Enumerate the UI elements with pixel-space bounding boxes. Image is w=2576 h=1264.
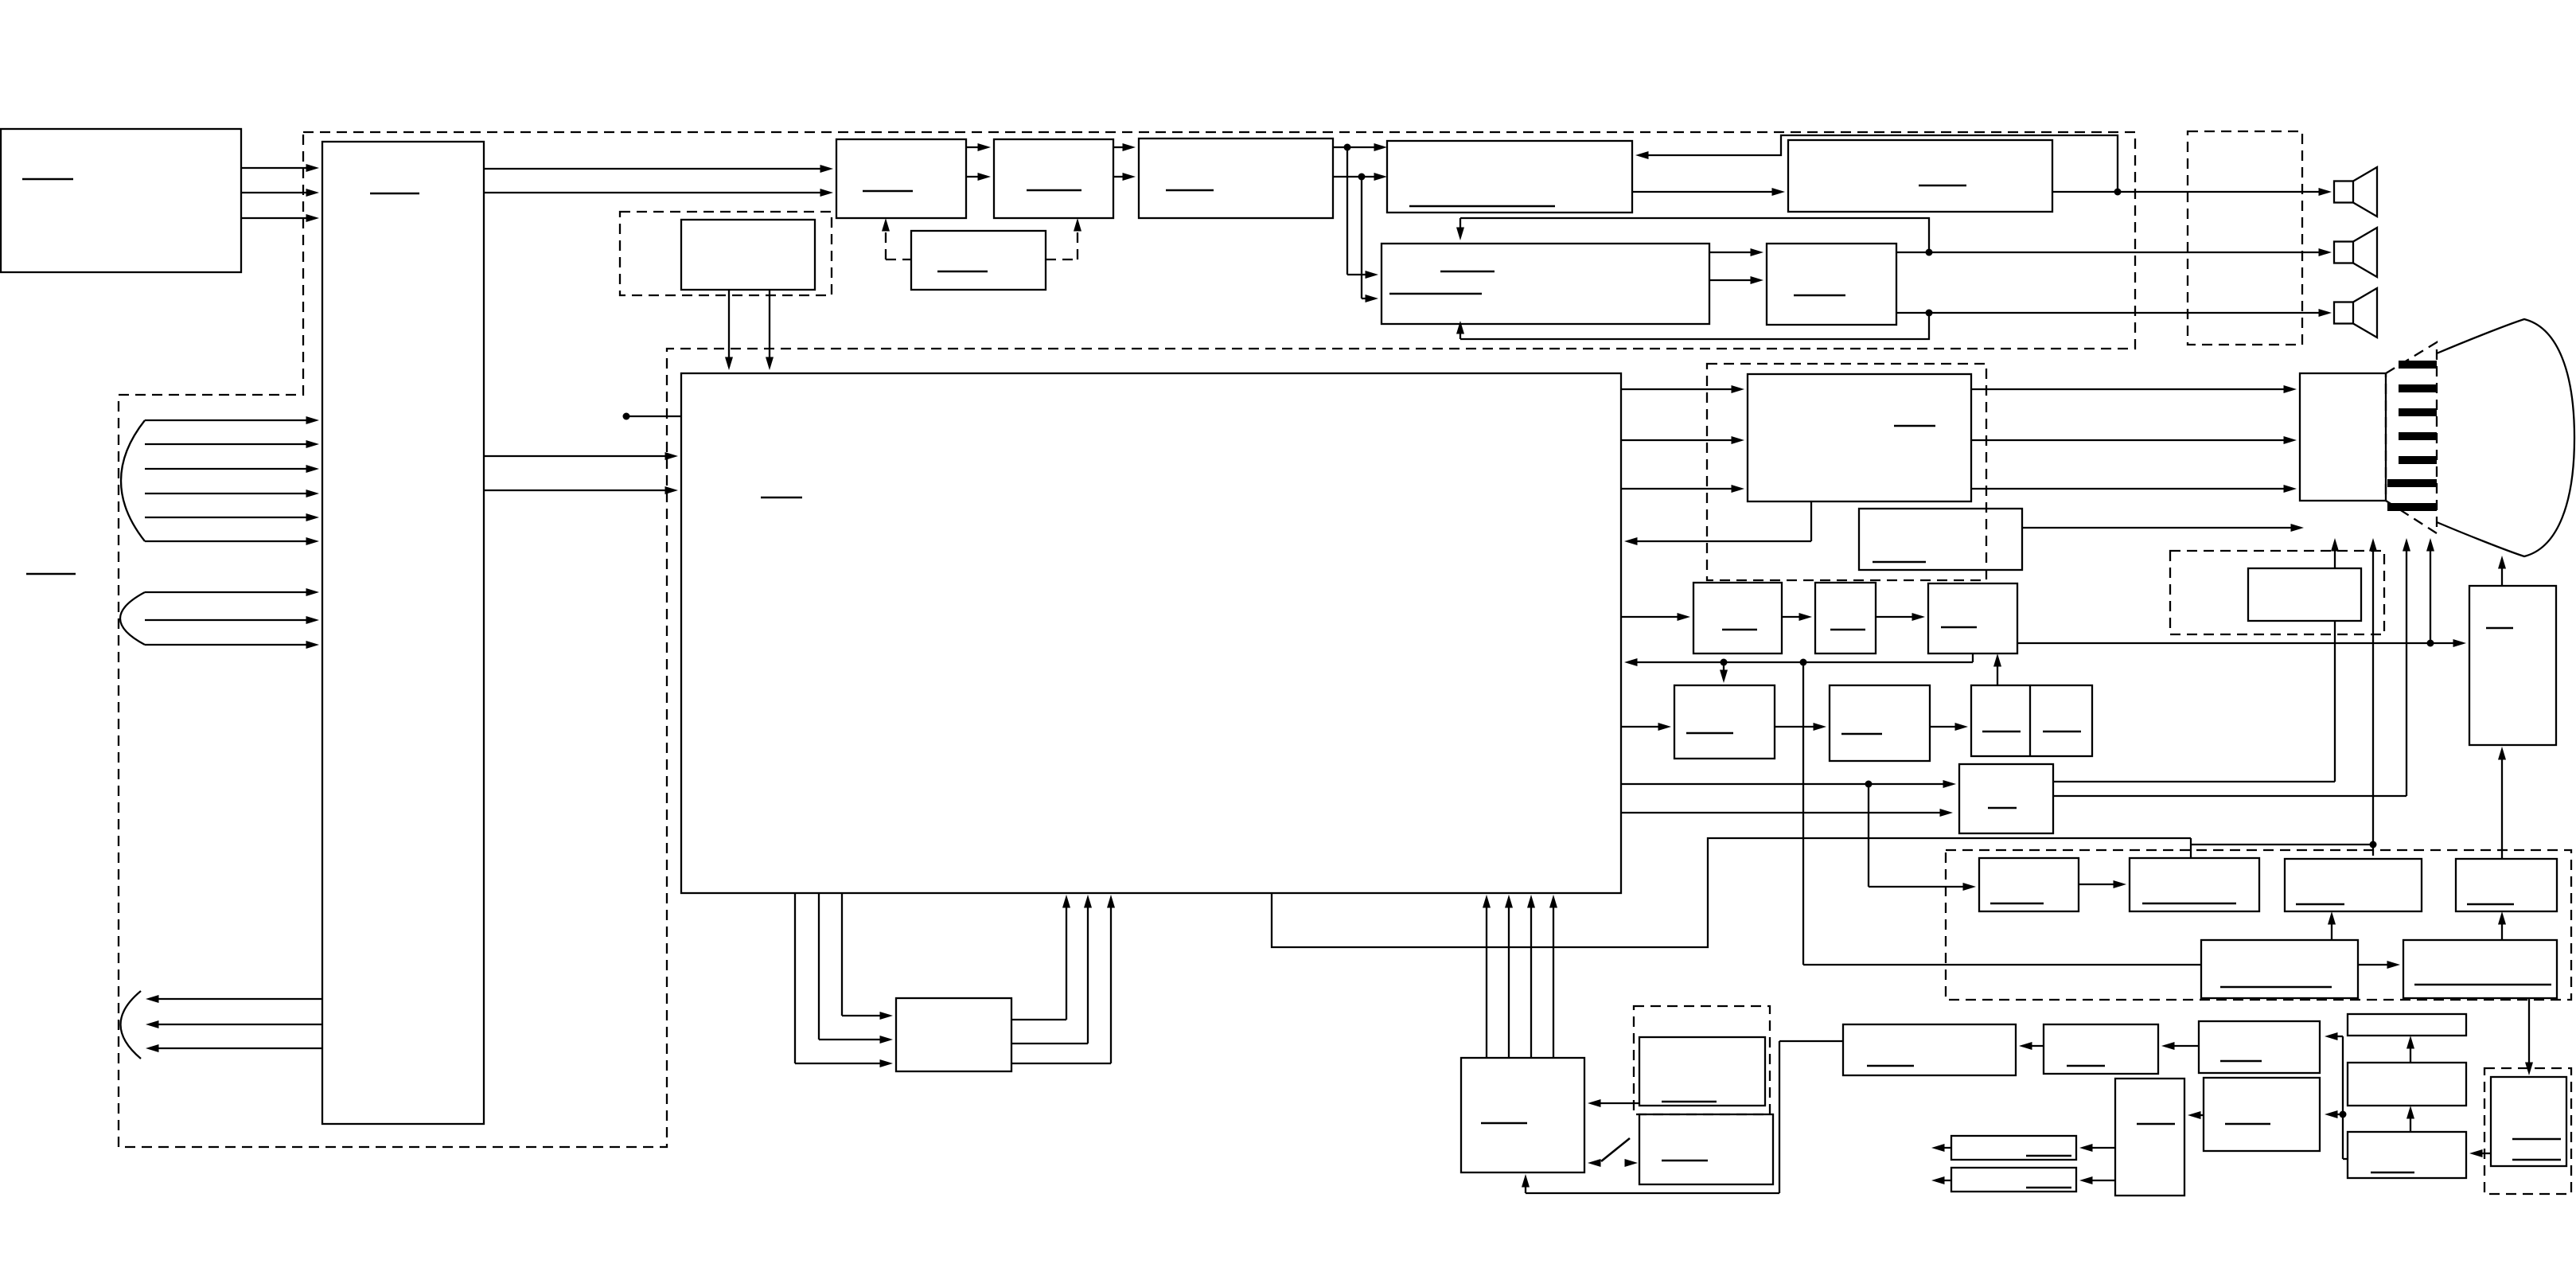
wire FB->CRT anode: [2498, 556, 2506, 586]
wire D3->D2: [2406, 1106, 2414, 1132]
wire L2 out: [1931, 1176, 1951, 1184]
speaker SP1: [2334, 167, 2377, 217]
wire tuner->controller 1: [241, 164, 319, 172]
wire junction down to P1: [1869, 784, 1976, 891]
wire feedback H->IC: [1624, 501, 1811, 545]
dashed main-board outline: [119, 132, 2135, 1147]
wire M->IC 2: [1011, 895, 1092, 1044]
label keyboard group: [26, 573, 76, 575]
label RGB amp: [1894, 425, 1935, 427]
box power P2: [2130, 858, 2259, 911]
wire M->IC 3: [1011, 895, 1115, 1063]
wire R->P feedback: [1522, 1041, 1843, 1193]
box H-drive W1: [1830, 685, 1930, 761]
box regulator R2: [2044, 1024, 2158, 1074]
label audio A: [863, 190, 913, 193]
wire loop G->F bottom: [1460, 313, 1929, 339]
label audio D: [1166, 189, 1214, 192]
wire DD->I3 up: [1993, 653, 2001, 685]
wire J out to CRT neck: [2022, 524, 2304, 532]
wire RGB->CRT g: [1971, 436, 2297, 444]
wire B->D 1: [1113, 143, 1136, 151]
label sync I3: [1941, 626, 1977, 629]
wire LED output 3: [146, 1044, 322, 1052]
label main IC: [761, 497, 802, 499]
wire P->IC 2: [1505, 895, 1513, 1058]
wire R2->R: [2019, 1042, 2044, 1050]
label sync I2: [1830, 629, 1865, 631]
label P1: [1990, 903, 2044, 905]
label P6: [2414, 984, 2551, 986]
box pincushion K: [2248, 568, 2361, 621]
wire key input 5: [145, 513, 319, 521]
wire rail drop to P5: [1803, 662, 2201, 965]
wire D2->D1: [2406, 1036, 2414, 1063]
wire C1->L2: [2079, 1176, 2115, 1184]
dashed box dynamic-focus DB2: [2170, 551, 2384, 634]
box audio E (audio processor): [1387, 141, 1632, 213]
wire Q1->P: [1588, 1099, 1639, 1107]
wire up-arrow into F bottom: [1456, 321, 1464, 339]
brace keyboard group 2: [120, 592, 145, 645]
wire key input 4: [145, 490, 319, 497]
label audio F line1: [1440, 271, 1495, 273]
label Q1 underline: [1662, 1101, 1717, 1103]
label audio F line2: [1389, 293, 1482, 295]
wire IC->RGB 1: [1621, 385, 1744, 393]
label Q: [1662, 1160, 1708, 1162]
wire V out2 to yoke: [2053, 538, 2410, 796]
box rail D3: [2348, 1132, 2466, 1178]
wire key input 1: [145, 416, 319, 424]
label L2: [2026, 1187, 2071, 1189]
wire IC->M 2: [819, 893, 893, 1044]
box AC rectifier DR1: [2491, 1077, 2566, 1166]
box audio D (stereo decoder): [1139, 138, 1333, 218]
wire C1->L1: [2079, 1144, 2115, 1152]
wire key input 3: [145, 465, 319, 473]
box remote receiver Q1: [1639, 1037, 1765, 1106]
box AFT C: [911, 231, 1046, 290]
label P2: [2142, 903, 2236, 905]
label L1: [2026, 1155, 2071, 1157]
box error amp C2: [2204, 1078, 2320, 1151]
label R: [1867, 1065, 1914, 1067]
speaker SP2: [2334, 228, 2377, 277]
box audio B (FM det): [994, 139, 1113, 218]
label P3: [2296, 903, 2344, 906]
wire F->G 1: [1709, 248, 1763, 256]
label W1: [1841, 733, 1882, 735]
label audio G: [1794, 295, 1845, 297]
label blanking J: [1873, 561, 1926, 564]
box battery Q: [1639, 1114, 1773, 1184]
wire P->IC 4: [1549, 895, 1557, 1058]
wire P5->P3 up: [2328, 911, 2336, 940]
box audio A (SIF amp): [836, 139, 966, 218]
box H-out double DD: [1971, 685, 2092, 756]
wire L1 out: [1931, 1144, 1951, 1152]
wire clock down 2: [766, 290, 774, 370]
wire junction1 down to F: [1347, 147, 1378, 279]
wire key input 7: [145, 588, 319, 596]
wire I2->I3: [1876, 613, 1925, 621]
wire LED output 1: [146, 995, 322, 1003]
wire R3->R2: [2161, 1042, 2199, 1050]
box system-control IC (tall): [322, 142, 484, 1124]
label sync I1: [1722, 629, 1757, 631]
wire D->E 1 with junction: [1333, 143, 1387, 151]
box sync I3: [1928, 583, 2017, 653]
label C1: [2137, 1123, 2175, 1126]
box flyback FB: [2469, 586, 2556, 745]
box regulator R: [1843, 1024, 2016, 1075]
box sync I2: [1815, 583, 1876, 653]
wire V out1 to K: [2053, 621, 2335, 782]
label in tuner box: [22, 178, 73, 181]
wire junction2 down to F: [1362, 177, 1378, 302]
wire clock down 1: [725, 290, 733, 370]
label audio B: [1027, 189, 1081, 192]
box vertical out V: [1959, 764, 2053, 833]
dashed speaker connector box: [2188, 131, 2302, 345]
wire control->audio A lower: [484, 189, 833, 197]
wire control->audio A upper: [484, 165, 833, 173]
wire I3->focus line with junction: [2017, 639, 2466, 647]
label in control IC: [370, 193, 419, 195]
dashed power-supply box: [1946, 850, 2571, 1000]
wire P->IC 1: [1483, 895, 1491, 1058]
wire down-arrow into F top: [1456, 218, 1464, 240]
wire IC->V 1 with junction: [1621, 780, 1956, 788]
wire IC->RGB 3: [1621, 485, 1744, 493]
wire W1->DD: [1930, 723, 1968, 731]
dashed wire C->A bottom: [882, 218, 911, 259]
label DR1 line2: [2512, 1159, 2561, 1161]
box power P6: [2403, 940, 2557, 998]
label AFT C: [937, 271, 988, 273]
wire E->E2: [1632, 188, 1785, 196]
wire E2 out to SP1 with junction: [2052, 188, 2332, 196]
label DR1 line1: [2512, 1138, 2561, 1141]
dashed box around RGB amp: [1707, 364, 1986, 580]
wire IC->RGB 2: [1621, 436, 1744, 444]
box driver L2: [1951, 1168, 2076, 1192]
label C2: [2225, 1123, 2270, 1126]
label FB: [2486, 627, 2513, 630]
wire RGB->CRT b: [1971, 485, 2297, 493]
dashed wire C->B bottom: [1046, 218, 1081, 259]
box X-tal/clock unit: [681, 220, 815, 290]
wire G out lower to SP3: [1896, 309, 2332, 317]
wire P5->P6: [2358, 961, 2400, 969]
dashed box AC input DR: [2484, 1068, 2571, 1194]
wire key input 9: [145, 641, 319, 649]
wire feedback E2->E: [1635, 135, 2118, 192]
box audio E2 (audio out): [1788, 140, 2052, 212]
box sync I1: [1693, 583, 1782, 653]
wire loop G->F top: [1460, 218, 1929, 252]
brace LED outputs: [121, 991, 142, 1059]
wire IC->V 2: [1621, 809, 1953, 817]
wire D->E 2 with junction: [1333, 173, 1387, 181]
box audio F (matrix): [1382, 244, 1709, 324]
yoke coil bars: [2387, 361, 2437, 511]
box power P1: [1979, 858, 2079, 911]
wire IC->I1: [1621, 613, 1690, 621]
wire P6->P4 up: [2498, 911, 2506, 940]
wire G out upper to SP2: [1896, 248, 2332, 256]
box regulator R3: [2199, 1021, 2320, 1073]
box error amp C1 (tall): [2115, 1079, 2184, 1196]
box RGB output amp H: [1748, 374, 1971, 501]
wire LED output 2: [146, 1020, 322, 1028]
wire M->IC 1: [1011, 895, 1070, 1020]
box sub regulator M: [896, 998, 1011, 1071]
box rail D1: [2348, 1014, 2466, 1036]
wire yoke arrow 2: [2369, 538, 2377, 856]
dashed box remote receiver DQ: [1634, 1006, 1770, 1114]
label R2: [2067, 1065, 2105, 1067]
box rail D2: [2348, 1063, 2466, 1106]
label DD right cell: [2043, 731, 2081, 733]
wire IC->M 1: [795, 893, 893, 1067]
box power P5: [2201, 940, 2358, 998]
label R3: [2220, 1060, 2262, 1063]
wire W0->W1: [1775, 723, 1826, 731]
label P5: [2220, 986, 2332, 989]
switch mains (open): [1588, 1138, 1638, 1167]
dashed box around X-tal unit: [620, 212, 832, 295]
label D3: [2371, 1172, 2414, 1174]
wire IC B+ feed: [1272, 838, 2377, 947]
label audio E2: [1919, 185, 1966, 187]
box audio G (amp): [1767, 244, 1896, 325]
brace keyboard group 1: [121, 420, 145, 541]
wire RGB->CRT r: [1971, 385, 2297, 393]
label W0: [1686, 732, 1733, 735]
box power P4: [2456, 859, 2557, 911]
wire key input 6: [145, 537, 319, 545]
wire control->video IC 1: [484, 452, 678, 460]
wire C2->C1: [2188, 1111, 2204, 1119]
box CRT socket: [2300, 373, 2386, 501]
wire IC->W0: [1621, 723, 1671, 731]
CRT bell and screen: [2437, 319, 2574, 556]
label audio E (long): [1409, 205, 1555, 208]
wire key input 2: [145, 440, 319, 448]
wire P6->DR1 down: [2525, 998, 2533, 1075]
wire junction up to yoke 4: [2426, 538, 2434, 643]
dashed deflection yoke: [2386, 342, 2437, 533]
speaker SP3: [2334, 288, 2377, 337]
label standby micro: [1481, 1122, 1527, 1125]
wire DR1->D3: [2469, 1149, 2491, 1157]
wire tuner->controller 2: [241, 189, 319, 197]
wire tuner->controller 3: [241, 214, 319, 222]
wire A->B 2: [966, 173, 991, 181]
box blanking J: [1859, 509, 2022, 570]
wire I1->I2: [1782, 613, 1812, 621]
box H-driver W0: [1674, 685, 1775, 759]
node stub into video IC: [623, 413, 682, 420]
wire P1->P2: [2079, 880, 2126, 888]
wire key input 8: [145, 616, 319, 624]
wire P4->FB: [2498, 747, 2506, 859]
wire B->D 2: [1113, 173, 1136, 181]
wire IC->M 3: [842, 893, 893, 1020]
box tuner (top-left input unit): [1, 129, 241, 272]
label V: [1988, 807, 2017, 810]
wire A->B 1: [966, 143, 991, 151]
wire F->G 2: [1709, 276, 1763, 284]
wire rail drop into W0: [1720, 662, 1728, 683]
box standby micro P: [1461, 1058, 1584, 1172]
box driver L1: [1951, 1136, 2076, 1160]
label DD left cell: [1982, 731, 2021, 733]
wire rail D3->R3/C2: [2325, 1032, 2348, 1159]
label P4: [2467, 903, 2514, 906]
box main video-chroma IC (large): [681, 373, 1621, 893]
wire control->video IC 2: [484, 486, 678, 494]
box power P3: [2285, 859, 2422, 911]
wire rail y832 from I3 to IC: [1624, 653, 1973, 666]
wire P->IC 3: [1527, 895, 1535, 1058]
wire K->yoke up: [2331, 538, 2339, 568]
